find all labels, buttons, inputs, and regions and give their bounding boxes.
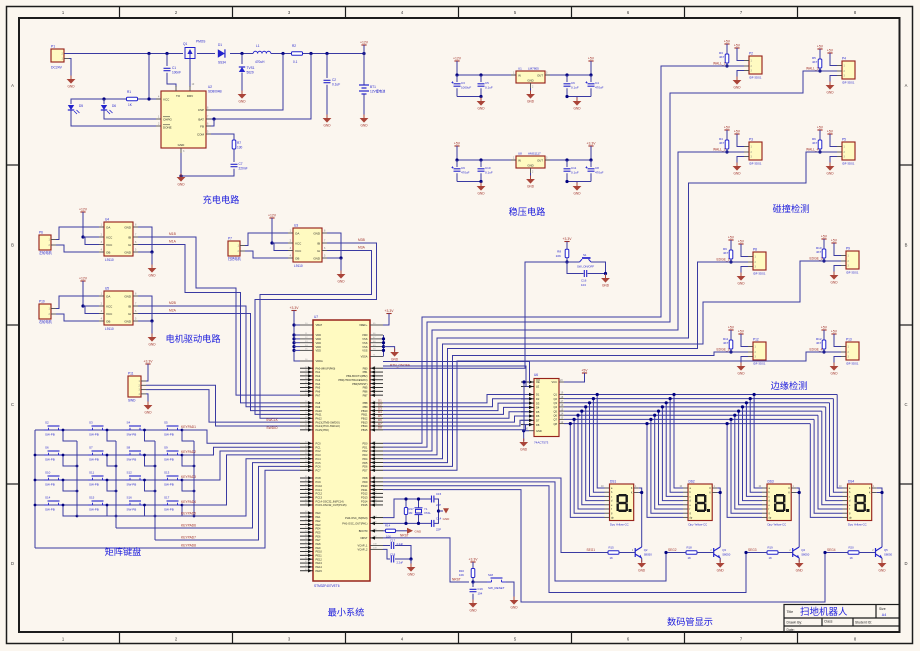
svg-text:S4: S4 (127, 421, 131, 425)
svg-text:4K7: 4K7 (812, 60, 818, 64)
wire M3B to MCU PA12 (255, 243, 377, 414)
wire connector vcc pin (830, 134, 837, 147)
wire SEG1 from MCU (383, 478, 608, 553)
svg-text:GND: GND (313, 231, 321, 235)
power +12V at U4 (82, 212, 84, 215)
svg-text:+3.3V: +3.3V (385, 309, 395, 313)
wire base (778, 552, 793, 554)
capacitor C7 220nF (231, 164, 238, 166)
svg-text:104: 104 (478, 592, 483, 596)
svg-text:PD10: PD10 (361, 484, 368, 488)
wire connector vcc pin (741, 334, 748, 347)
svg-text:PC7: PC7 (316, 468, 322, 472)
svg-text:SW-PB: SW-PB (127, 458, 137, 462)
svg-text:4K7: 4K7 (719, 55, 725, 59)
svg-text:VCAP_1: VCAP_1 (358, 544, 369, 548)
node junction WALL_3 (818, 69, 821, 72)
switch S15 SW-PB (88, 501, 107, 505)
wire OB to connector (56, 245, 99, 252)
node K junction (798, 491, 801, 494)
svg-text:+5V: +5V (734, 130, 741, 134)
svg-text:Size: Size (879, 607, 886, 611)
node junction EDGE_3 (822, 259, 825, 262)
svg-text:VREF+: VREF+ (359, 323, 368, 327)
svg-text:OA: OA (106, 225, 110, 229)
svg-text:左轮电机: 左轮电机 (39, 250, 53, 255)
node bus tap (592, 397, 595, 400)
node jog junction (106, 429, 109, 432)
node TVS junction (240, 52, 243, 55)
svg-text:GND: GND (573, 192, 581, 196)
ground C19 (472, 600, 474, 604)
svg-text:4K7: 4K7 (723, 341, 729, 345)
svg-text:Date:: Date: (787, 628, 795, 632)
svg-text:Dpy Yellow-CC: Dpy Yellow-CC (689, 523, 708, 527)
svg-text:PB6: PB6 (363, 390, 368, 394)
svg-text:VCC: VCC (106, 243, 113, 247)
motor driver U5 L9110 (104, 291, 133, 325)
svg-text:D1: D1 (218, 43, 222, 47)
svg-text:GND: GND (148, 343, 156, 347)
svg-text:+5V: +5V (831, 330, 838, 334)
node jog junction (62, 429, 65, 432)
node bus tap (576, 414, 579, 417)
transistor Q3 S8050 (714, 547, 721, 558)
svg-text:GND: GND (527, 185, 535, 189)
node bus tap (726, 422, 729, 425)
svg-text:KEYPAD5: KEYPAD5 (181, 512, 196, 516)
wire latch GND (524, 431, 529, 441)
svg-text:PC10: PC10 (316, 484, 323, 488)
svg-text:P4: P4 (842, 57, 846, 61)
svg-text:R19: R19 (768, 546, 774, 550)
svg-text:GND: GND (733, 86, 741, 90)
node bus tap (733, 414, 736, 417)
svg-text:A: A (11, 83, 14, 88)
svg-text:KEYPAD1: KEYPAD1 (181, 425, 196, 429)
svg-text:IB: IB (317, 241, 320, 245)
wire keyboard col jog (63, 480, 77, 491)
svg-text:PA12: PA12 (316, 417, 323, 421)
ground S1 (605, 274, 607, 278)
svg-text:PE14: PE14 (316, 565, 323, 569)
svg-text:R18: R18 (687, 546, 693, 550)
svg-text:PB2-BOOT1(PB2): PB2-BOOT1(PB2) (346, 374, 367, 378)
wire connector vcc pin (737, 48, 744, 61)
svg-text:KEYPAD4: KEYPAD4 (181, 500, 196, 504)
node crystal gnd tap (437, 509, 440, 512)
svg-text:Q8: Q8 (554, 422, 558, 426)
svg-text:+3.3V: +3.3V (144, 360, 154, 364)
ground GND at P1 (70, 76, 72, 80)
wire PH0 to crystal (383, 499, 431, 518)
wire DS3 K net to transistor (796, 488, 799, 547)
svg-text:XTAL: XTAL (424, 511, 431, 515)
svg-text:+3.3V: +3.3V (290, 306, 300, 310)
node VSS junction (382, 345, 385, 348)
wire M2A to MCU PA11 (138, 314, 300, 411)
ground crystal (439, 510, 444, 512)
svg-text:PA3: PA3 (316, 378, 321, 382)
wire keyboard col jog (107, 430, 116, 441)
power +5V pullup R12 (823, 330, 825, 333)
svg-text:VCC: VCC (552, 380, 558, 384)
svg-text:OA: OA (106, 294, 110, 298)
wire GND pins join (327, 233, 341, 258)
charger IC U2 SD8004B (161, 91, 206, 148)
capacitor output bulk 470uF (589, 73, 592, 76)
power +3.3V reset (472, 562, 474, 565)
svg-text:KEYPAD2: KEYPAD2 (181, 450, 196, 454)
power +12V at battery (363, 45, 365, 48)
switch S6 SW-PB (44, 451, 63, 455)
power +5V connector P8 (740, 244, 742, 247)
svg-text:PC1: PC1 (316, 445, 322, 449)
wire OB to connector (56, 314, 99, 321)
wire connector gnd pin (741, 267, 748, 276)
MCU right power pins (370, 324, 383, 326)
title block (784, 605, 900, 633)
svg-text:Dpy Yellow-CC: Dpy Yellow-CC (768, 523, 787, 527)
node VDD junction (292, 345, 295, 348)
wire VDD rail left (294, 311, 300, 362)
node jog junction (181, 429, 184, 432)
power +5V pullup R10 (823, 239, 825, 242)
power +5V pullup R3 (726, 44, 728, 47)
svg-text:IB: IB (128, 235, 131, 239)
svg-text:PC3: PC3 (316, 453, 322, 457)
resistor R20 1K base (848, 551, 859, 554)
svg-text:VSS: VSS (362, 349, 367, 353)
svg-text:+5V: +5V (817, 45, 824, 49)
node VSS junction (382, 337, 385, 340)
svg-text:PD6: PD6 (362, 465, 368, 469)
svg-text:GND: GND (391, 358, 399, 362)
svg-text:EDGE_4: EDGE_4 (809, 348, 822, 352)
wire keyboard col jog (182, 480, 194, 491)
svg-text:SD8004B: SD8004B (208, 90, 222, 94)
power +5V connector P12 (740, 334, 742, 337)
power +5V pullup R6 (819, 130, 821, 133)
crystal Y1 (418, 499, 420, 508)
svg-text:GND: GND (826, 91, 834, 95)
svg-text:GND: GND (510, 606, 518, 610)
switch S13 SW-PB (163, 476, 182, 480)
power +12V at U3 (271, 218, 273, 221)
svg-text:VDDA: VDDA (316, 359, 323, 363)
wire KEYPAD6 to MCU (116, 463, 300, 528)
svg-text:NRST: NRST (360, 536, 367, 540)
inductor L1 470uH (253, 51, 271, 53)
resistor R15 1K base (608, 551, 619, 554)
svg-text:C6: C6 (571, 81, 575, 85)
wire KEYPAD2 to MCU (182, 447, 300, 455)
node S1 gnd junction (604, 272, 607, 275)
node junction EDGE_4 (822, 350, 825, 353)
ground right (576, 98, 578, 102)
svg-text:C18: C18 (390, 553, 396, 557)
svg-text:SW-PB: SW-PB (45, 508, 55, 512)
wire regulator gnd (530, 173, 532, 178)
svg-text:D7: D7 (536, 419, 540, 423)
svg-text:WALL_4: WALL_4 (806, 148, 819, 152)
power +5V pullup R4 (726, 130, 728, 133)
comb wires bus to DS2 pins (647, 424, 683, 518)
svg-text:S18: S18 (488, 573, 493, 577)
wire keyboard row 2 (35, 454, 182, 456)
wire bottom rail left (457, 96, 481, 98)
svg-text:PE2: PE2 (316, 519, 321, 523)
svg-text:OA: OA (295, 231, 299, 235)
svg-text:GND: GND (178, 143, 186, 147)
ground at P12 (740, 363, 742, 367)
power +12V at U5 (82, 281, 84, 284)
svg-text:+5V: +5V (588, 57, 595, 61)
switch S12 SW-PB (126, 476, 145, 480)
svg-text:S10: S10 (45, 471, 51, 475)
svg-text:PD8: PD8 (362, 476, 368, 480)
svg-text:CSP: CSP (198, 108, 204, 112)
svg-text:GND: GND (67, 85, 75, 89)
power +3.3V P11 (147, 364, 149, 367)
wire OA to connector (56, 227, 99, 240)
svg-text:PD12: PD12 (361, 492, 368, 496)
node bus tap (729, 418, 732, 421)
wire net WALL_2 route (383, 152, 727, 451)
power +5V connector P4 (829, 53, 831, 56)
svg-text:2.2uF: 2.2uF (397, 561, 404, 565)
wire VSS gnd tap (384, 347, 395, 352)
svg-text:PD1: PD1 (362, 445, 368, 449)
svg-text:碰撞检测: 碰撞检测 (773, 203, 810, 214)
wire KEYPAD8 to MCU (35, 470, 300, 548)
display DS2 K common pins (712, 487, 717, 489)
node junction WALL_4 (818, 150, 821, 153)
switch S10 SW-PB (44, 476, 63, 480)
svg-text:L9110: L9110 (105, 258, 114, 262)
battery BT1 12V (359, 85, 369, 94)
svg-text:SW-PB: SW-PB (89, 433, 99, 437)
node bus tap (649, 418, 652, 421)
wire OB to connector (245, 251, 288, 258)
svg-text:+5V: +5V (738, 240, 745, 244)
svg-text:GND: GND (527, 79, 533, 83)
svg-text:Q4: Q4 (554, 405, 558, 409)
svg-text:+5V: +5V (728, 326, 735, 330)
node rail junction C1 (165, 52, 168, 55)
wire bottom rail left (457, 181, 481, 183)
svg-text:22P: 22P (436, 528, 441, 532)
svg-text:1K: 1K (688, 556, 692, 560)
svg-text:BAT: BAT (198, 117, 204, 121)
node rail junction VCC drop (147, 52, 150, 55)
wire keyboard row 4 (35, 504, 182, 506)
svg-text:DRV: DRV (187, 94, 193, 98)
wire latch OE control (383, 362, 530, 383)
node bus tap (669, 397, 672, 400)
svg-text:M2B: M2B (169, 301, 177, 305)
svg-text:VDD: VDD (316, 341, 322, 345)
svg-text:Title: Title (787, 610, 794, 614)
svg-text:OUT: OUT (537, 159, 543, 163)
svg-text:+3.3V: +3.3V (587, 142, 597, 146)
svg-text:P1: P1 (51, 45, 55, 49)
svg-text:GND: GND (796, 569, 804, 573)
wire keyboard left bus (34, 430, 36, 548)
wire net WALL_3 route (383, 71, 820, 447)
svg-text:P9: P9 (846, 247, 850, 251)
svg-text:D: D (904, 561, 907, 566)
svg-text:VDD: VDD (316, 333, 322, 337)
wire KEYPAD7 to MCU (155, 466, 300, 540)
ground left (480, 98, 482, 102)
svg-text:104: 104 (581, 283, 586, 287)
capacitor C16 104 (567, 262, 584, 274)
wire connector signal pin (731, 261, 748, 263)
ground at U5 (151, 334, 153, 338)
wire keyboard row 3 (35, 479, 182, 481)
svg-text:PD4: PD4 (362, 457, 368, 461)
svg-text:C5: C5 (485, 81, 489, 85)
svg-text:SW-PB: SW-PB (127, 483, 137, 487)
svg-text:电机驱动电路: 电机驱动电路 (165, 333, 220, 344)
svg-text:PC5: PC5 (316, 461, 322, 465)
wire SWCLK net (146, 390, 300, 423)
svg-text:IDF-3DS1: IDF-3DS1 (846, 271, 859, 275)
svg-text:S8050: S8050 (801, 553, 810, 557)
transistor Q1 PMOS (185, 48, 195, 59)
wire net EDGE_2 route (383, 352, 731, 466)
svg-text:0.1uF: 0.1uF (332, 83, 340, 87)
wire COM pin RC network (211, 134, 234, 140)
svg-text:PD5: PD5 (362, 461, 368, 465)
svg-text:Q7: Q7 (554, 418, 558, 422)
svg-text:OUT: OUT (537, 74, 543, 78)
svg-text:边缘检测: 边缘检测 (771, 380, 808, 391)
svg-text:Q3: Q3 (722, 548, 726, 552)
svg-text:PD15: PD15 (361, 503, 368, 507)
svg-text:SW-PB: SW-PB (45, 433, 55, 437)
ground arrow boot0 (407, 528, 413, 534)
svg-text:VDD: VDD (316, 337, 322, 341)
MCU PE0-PE15 pins (300, 512, 313, 514)
svg-text:S12: S12 (127, 471, 133, 475)
svg-text:SW_ON/OFF: SW_ON/OFF (577, 265, 594, 269)
latch Q pins (559, 394, 564, 396)
svg-text:M3A: M3A (358, 246, 366, 250)
wire net WALL_4 route (383, 152, 820, 455)
svg-text:1K: 1K (610, 556, 614, 560)
svg-text:GND: GND (477, 192, 485, 196)
wire connector gnd pin (737, 157, 744, 166)
svg-text:C7: C7 (239, 162, 243, 166)
node bus tap (661, 405, 664, 408)
7-segment display DS4 (848, 484, 872, 521)
svg-text:SW-PB: SW-PB (164, 483, 174, 487)
capacitor input 0.1uF (479, 73, 482, 76)
svg-text:+12V: +12V (360, 41, 369, 45)
power +3.3V MCU left (293, 311, 295, 314)
ground P11 (147, 402, 149, 406)
node K junction (719, 491, 722, 494)
node junction WALL_2 (725, 150, 728, 153)
wire D6 data (383, 416, 529, 422)
node vcc junction (270, 241, 273, 244)
svg-text:GND: GND (148, 274, 156, 278)
svg-text:VDD: VDD (316, 345, 322, 349)
svg-text:TO: TO (176, 94, 181, 98)
node bus tap (672, 393, 675, 396)
svg-text:VDD: VDD (316, 349, 322, 353)
svg-text:PC2: PC2 (316, 449, 322, 453)
svg-text:PC8: PC8 (316, 476, 322, 480)
svg-text:+12V: +12V (268, 214, 277, 218)
svg-text:Q1: Q1 (554, 393, 558, 397)
svg-text:PB11: PB11 (361, 413, 368, 417)
svg-text:1K: 1K (769, 556, 773, 560)
node bus tap (665, 401, 668, 404)
svg-text:S11: S11 (89, 471, 94, 475)
svg-text:GND: GND (733, 172, 741, 176)
capacitor output 0.1uF (565, 158, 568, 161)
svg-text:PC13: PC13 (316, 495, 323, 499)
wire emitter to ground (719, 558, 721, 562)
ground at P8 (740, 273, 742, 277)
svg-text:PE4: PE4 (316, 527, 321, 531)
capacitor C1 100nF (166, 54, 168, 67)
node VDD junction (292, 333, 295, 336)
svg-text:GND: GND (830, 281, 838, 285)
svg-text:PB5: PB5 (363, 386, 368, 390)
svg-text:TVS1: TVS1 (247, 66, 255, 70)
wire latch VCC (564, 373, 585, 382)
wire vcc pins (83, 236, 99, 238)
power +5V connector P13 (833, 334, 835, 337)
svg-text:PA15(JTDI): PA15(JTDI) (316, 428, 329, 432)
svg-text:IDF-3DS1: IDF-3DS1 (753, 362, 766, 366)
svg-text:C10: C10 (485, 166, 491, 170)
svg-text:CHRG: CHRG (163, 117, 172, 121)
resistor R19 1K base (767, 551, 778, 554)
display DS4 K common pins (872, 487, 877, 489)
svg-text:稳压电路: 稳压电路 (509, 206, 546, 217)
svg-text:GND: GND (520, 448, 528, 452)
svg-text:OB: OB (295, 256, 299, 260)
svg-text:SS34: SS34 (218, 61, 226, 65)
svg-text:SW_RESET: SW_RESET (488, 586, 505, 590)
svg-text:FB: FB (200, 124, 204, 128)
MCU PH0 PH1 BOOT0 NRST pins (370, 517, 383, 519)
svg-text:Q2: Q2 (554, 397, 558, 401)
wire SEG4 from MCU (383, 490, 848, 602)
svg-text:LE: LE (536, 385, 539, 389)
svg-text:P10: P10 (39, 300, 45, 304)
svg-text:PE12: PE12 (316, 557, 323, 561)
ground latch (523, 439, 525, 443)
node bus tap (749, 397, 752, 400)
wire vcc pins (272, 242, 288, 244)
svg-text:KEYPAD3: KEYPAD3 (181, 475, 196, 479)
svg-text:AMS1117: AMS1117 (528, 152, 541, 156)
ground at U3 (340, 271, 342, 275)
svg-text:S8050: S8050 (722, 553, 731, 557)
svg-text:Q6: Q6 (554, 413, 558, 417)
wire OA to connector (245, 233, 288, 246)
svg-text:+5V: +5V (581, 369, 588, 373)
svg-text:NRST: NRST (400, 534, 409, 538)
switch S8 SW-PB (126, 451, 145, 455)
svg-text:S13: S13 (164, 471, 170, 475)
